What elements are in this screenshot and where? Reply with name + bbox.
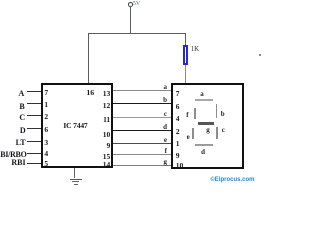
wire A [27, 91, 41, 92]
pin 13 [101, 91, 110, 96]
pin 16 label [86, 90, 94, 95]
resistor R1 1K [183, 45, 189, 65]
wire LT [27, 141, 41, 142]
node label b [160, 98, 167, 103]
display pin 4 [176, 116, 180, 121]
pin 6 [44, 127, 48, 132]
input RBI label [0, 160, 26, 165]
IC 7447 label [63, 123, 87, 128]
display pin 6 [176, 104, 180, 109]
wire: IC pin 8 to ground [74, 168, 75, 178]
wire B [27, 103, 41, 104]
segment a [195, 99, 212, 101]
wire g [113, 165, 173, 166]
7-segment display DS1 box [171, 83, 244, 169]
wire BI/RBO [27, 153, 41, 154]
segment f [194, 108, 196, 119]
input C label [0, 115, 25, 120]
wire: resistor to display anode [185, 65, 186, 84]
display pin 1 [176, 141, 180, 146]
pin 10 [101, 132, 110, 137]
wire: drop to resistor [185, 33, 186, 46]
1K value label [191, 47, 199, 52]
pin 4 [44, 151, 48, 156]
pin 12 [101, 103, 110, 108]
wire a [113, 90, 173, 91]
segment label b [221, 112, 225, 117]
input B label [0, 104, 25, 109]
input A label [0, 91, 24, 96]
wire: power rail horizontal [88, 33, 187, 34]
wire: 5V stem [130, 6, 131, 33]
segment c [216, 127, 218, 139]
segment label f [186, 113, 188, 118]
pin 9 [101, 143, 110, 148]
wire D [27, 128, 41, 129]
node label a [160, 85, 167, 90]
input BI/RBO label [0, 152, 27, 157]
display pin 9 [176, 153, 180, 158]
wire: drop to IC pin 16 [88, 33, 89, 83]
segment g [198, 122, 214, 124]
pin 1 [44, 102, 48, 107]
segment d [195, 144, 212, 146]
wire RBI [27, 163, 41, 164]
wire e [113, 143, 173, 144]
pin 7 [44, 90, 48, 95]
segment label g [206, 128, 210, 133]
node label f [160, 149, 167, 154]
pin 14 [101, 162, 110, 167]
wire f [113, 154, 173, 155]
segment label a [200, 92, 204, 97]
wire b [113, 103, 173, 104]
input D label [0, 128, 26, 133]
pin 11 [101, 117, 110, 122]
node label d [160, 125, 167, 130]
display pin 2 [176, 129, 180, 134]
node label c [160, 112, 167, 117]
5V supply terminal [128, 2, 133, 7]
pin 3 [44, 140, 48, 145]
stray dot [259, 54, 261, 56]
pin 15 [101, 154, 110, 159]
segment label c [222, 128, 225, 133]
wire C [27, 115, 41, 116]
node label e [160, 138, 167, 143]
display pin 7 [176, 91, 180, 96]
pin 5 [44, 161, 48, 166]
segment b [216, 104, 218, 118]
5V label [133, 2, 140, 6]
ground [70, 179, 82, 180]
watermark ©Elprocus.com [210, 178, 254, 183]
IC U1 box [41, 83, 114, 169]
segment label e [187, 135, 190, 140]
pin 2 [44, 114, 48, 119]
display pin 10 [176, 163, 184, 168]
segment e [192, 128, 194, 139]
input LT label [0, 140, 26, 145]
wire d [113, 130, 173, 131]
node label g [160, 160, 167, 165]
segment label d [201, 150, 205, 155]
wire c [113, 117, 173, 118]
